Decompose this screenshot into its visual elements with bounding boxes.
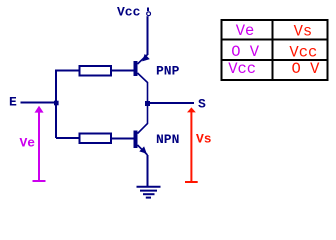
- NPN emitter arrow (points out, NPN): [139, 146, 147, 153]
- svg-text:Ve: Ve: [20, 135, 36, 150]
- wire R1 to input branch: [56, 70, 80, 72]
- svg-text:NPN: NPN: [156, 132, 179, 147]
- wire branch to resistor R2: [56, 137, 80, 139]
- wire output S: [148, 102, 195, 104]
- svg-text:PNP: PNP: [156, 64, 180, 79]
- ground: [137, 187, 161, 198]
- transistor Q1 PNP base bar: [134, 61, 138, 76]
- node E junction dot: [54, 101, 59, 106]
- svg-text:Vcc: Vcc: [228, 60, 256, 78]
- transistor Q1 PNP emitter diagonal: [138, 55, 148, 65]
- Vcc terminal circle: [147, 12, 151, 16]
- Vs arrowhead: [187, 107, 196, 112]
- svg-text:Vcc: Vcc: [289, 44, 317, 62]
- transistor Q2 NPN base bar: [134, 131, 138, 149]
- transistor Q1 PNP collector: [138, 73, 148, 103]
- wire Vcc to PNP emitter: [147, 16, 149, 55]
- transistor Q2 NPN collector: [138, 103, 148, 134]
- wire PNP base to resistor R1: [111, 70, 134, 72]
- svg-text:Vcc: Vcc: [117, 5, 141, 20]
- node S junction dot: [145, 101, 150, 106]
- transistor Q2 NPN emitter diagonal: [138, 145, 148, 155]
- svg-text:S: S: [198, 97, 206, 112]
- Vcc terminal stub: [147, 8, 149, 12]
- PNP emitter arrow (points to base, PNP): [142, 54, 150, 62]
- wire NPN emitter to ground: [147, 155, 149, 187]
- svg-text:E: E: [9, 95, 17, 110]
- svg-text:Vs: Vs: [196, 131, 212, 146]
- wire R2 to NPN base: [111, 138, 134, 140]
- truth table frame: [222, 20, 328, 80]
- Ve measurement arrow: [33, 111, 46, 181]
- wire E input: [21, 102, 57, 104]
- resistor R1 (upper): [80, 66, 112, 76]
- svg-text:Ve: Ve: [236, 22, 255, 40]
- svg-text:O V: O V: [292, 60, 321, 78]
- svg-text:Vs: Vs: [294, 22, 313, 40]
- wire input branch vertical: [55, 70, 57, 139]
- Ve arrowhead: [35, 106, 44, 113]
- svg-text:O V: O V: [231, 43, 260, 61]
- Vs measurement arrow: [185, 112, 198, 183]
- resistor R2 (lower): [80, 134, 112, 144]
